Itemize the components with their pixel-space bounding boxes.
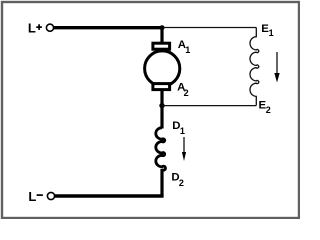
wire thin E2 return [162,105,256,107]
arrow D field direction [183,137,185,153]
wire D coil to bottom rail [160,169,163,196]
wire top rail [54,26,162,29]
svg-text:2: 2 [266,105,271,115]
wire vertical motor to D coil [160,90,163,129]
arrow E field direction [276,52,278,74]
svg-text:L: L [28,189,36,204]
motor brush top [153,43,170,49]
svg-text:1: 1 [185,45,190,55]
node top junction [160,25,165,30]
svg-text:L: L [28,21,36,36]
wire vertical into motor [160,27,163,44]
wire thin top to E1 [162,27,256,29]
node junction E2 return [159,103,164,108]
svg-text:1: 1 [269,28,274,38]
terminal L+ [46,24,53,31]
inductor E shunt field coil [250,28,259,106]
svg-text:2: 2 [179,178,184,188]
svg-text:1: 1 [180,126,185,136]
inductor D series field coil [156,128,166,170]
wire bottom rail [55,194,164,197]
svg-text:2: 2 [184,88,189,98]
motor armature circle M [145,51,180,86]
motor brush bottom [153,84,170,90]
terminal L- [47,192,54,199]
